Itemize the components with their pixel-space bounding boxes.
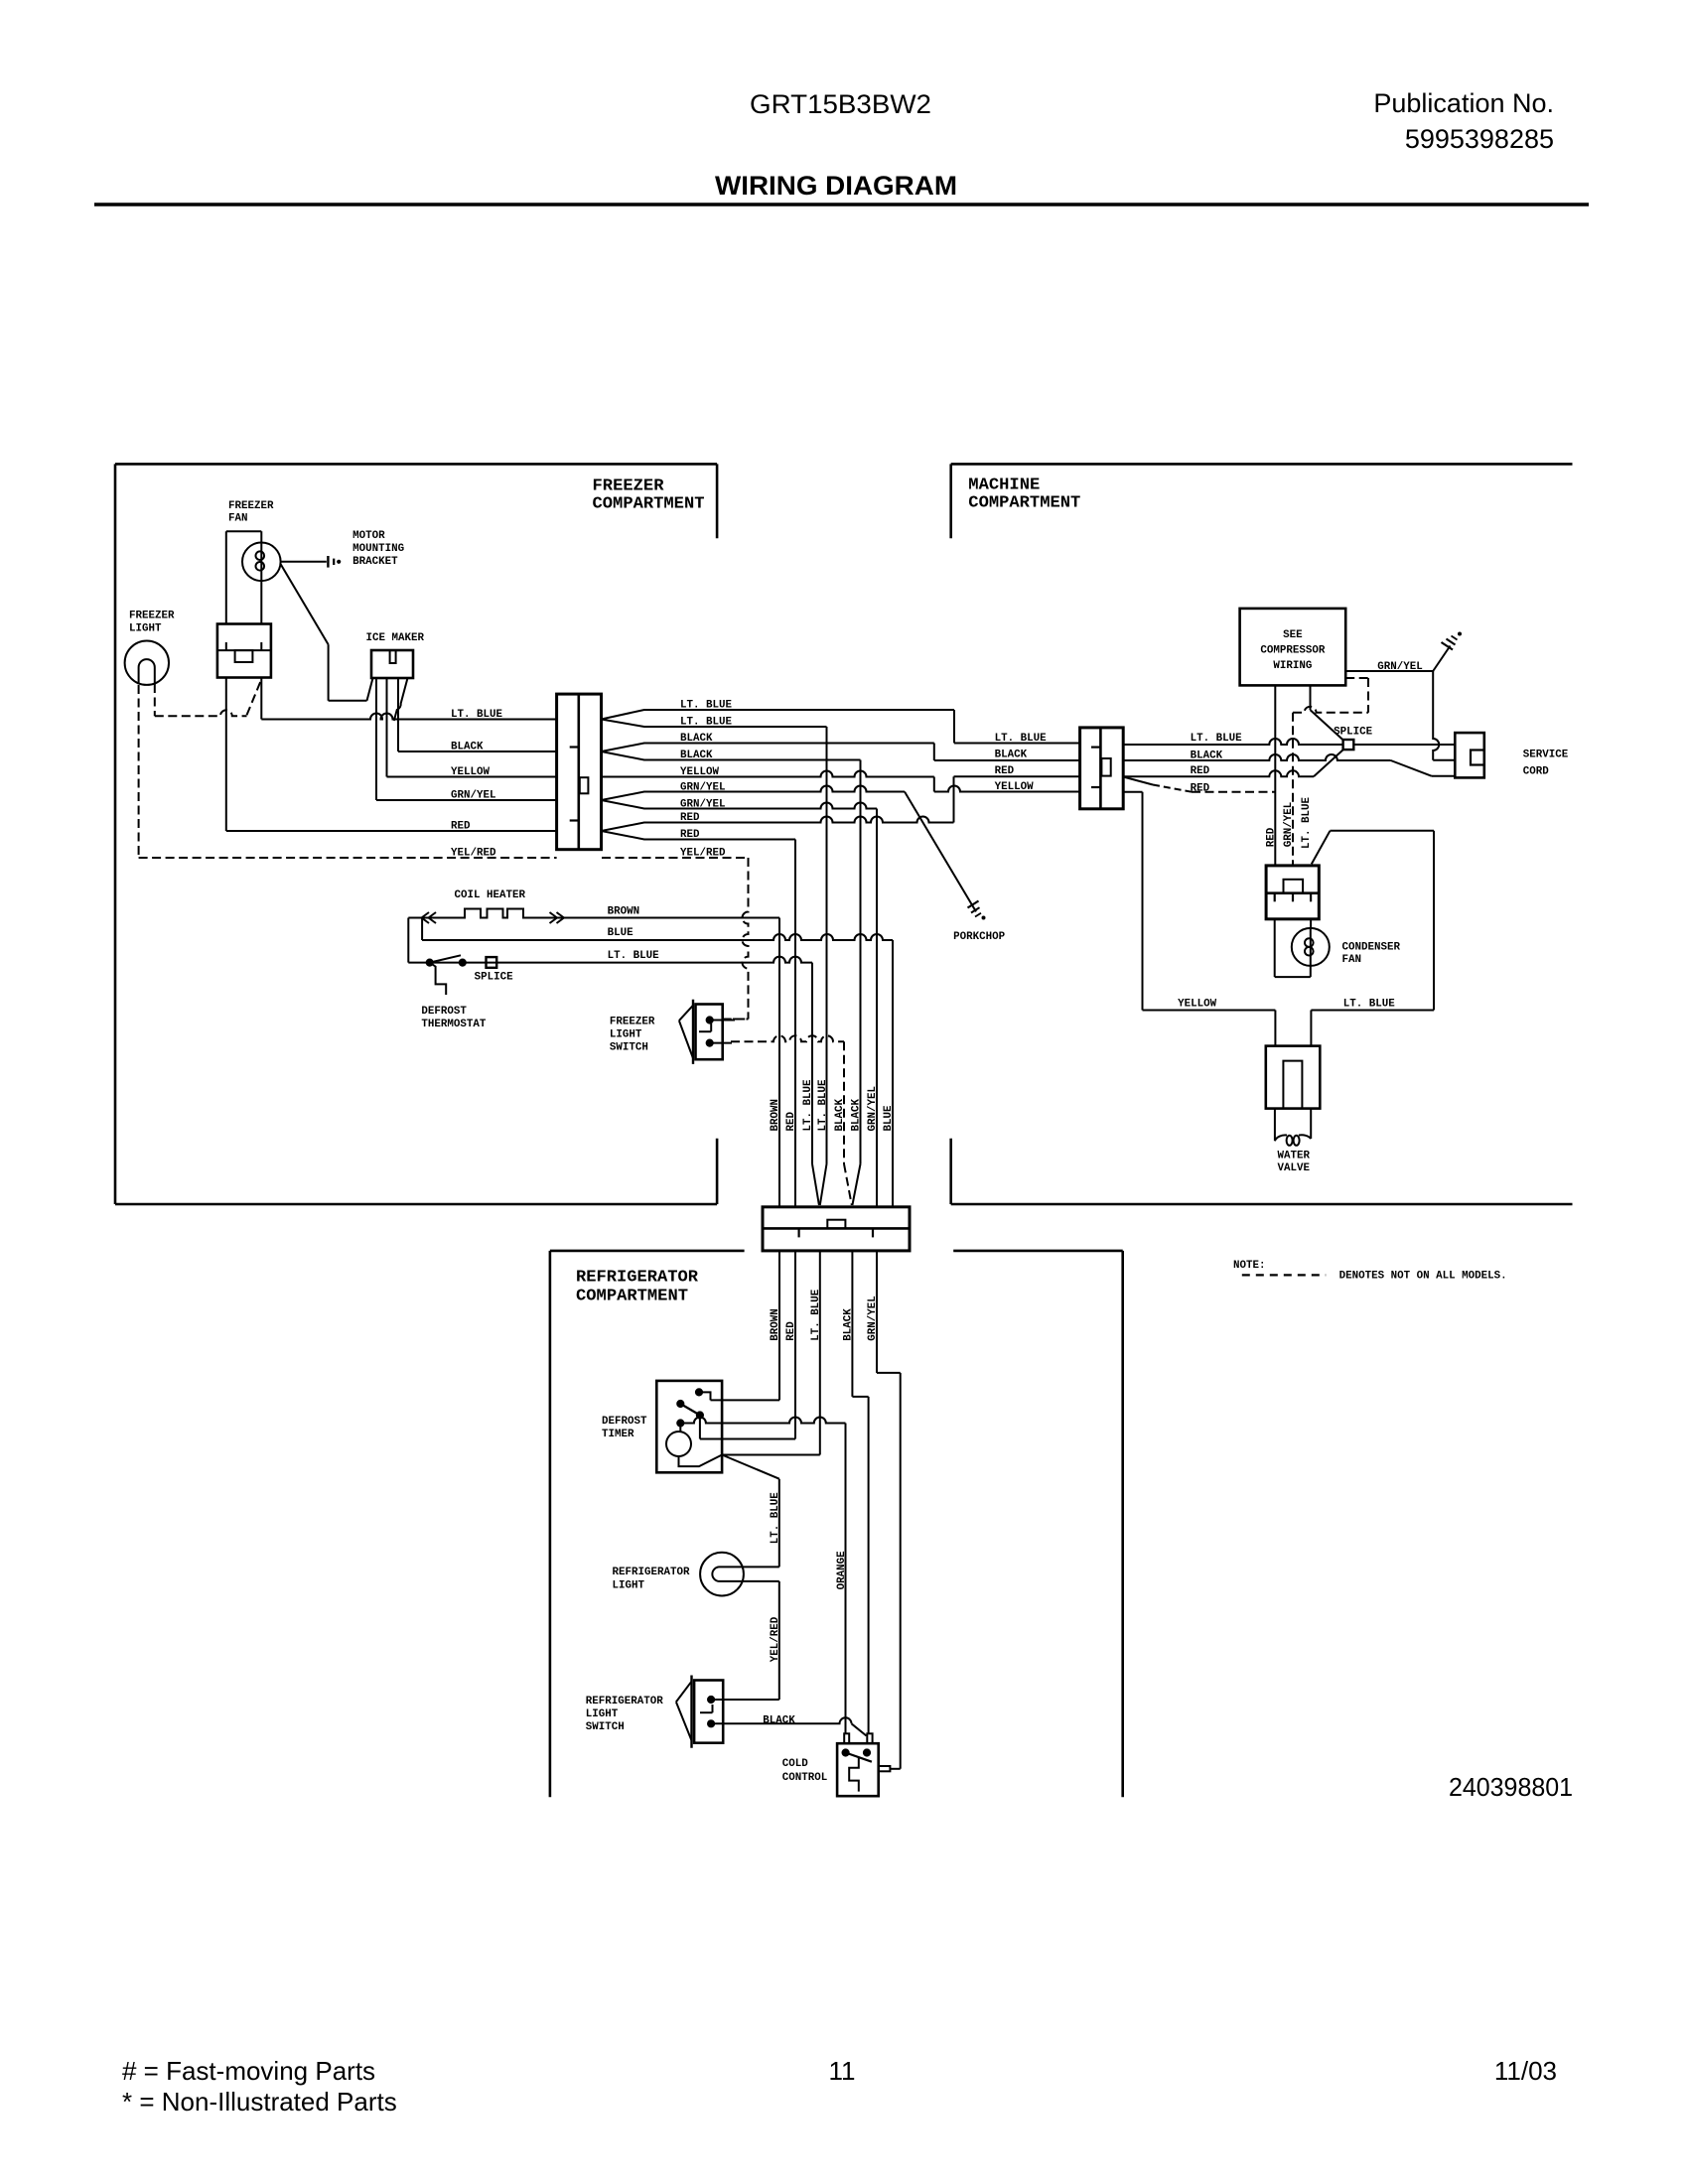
wire RED 2 drop to bundle: [654, 840, 795, 1207]
freezer fan label: [228, 500, 274, 525]
wire GRN/YEL to cold control: [877, 1251, 901, 1769]
YEL/RED label (refrigerator): [770, 1616, 781, 1662]
wire BLACK label left: [451, 742, 484, 753]
wire GRN/YEL 1 to porkchop: [654, 786, 976, 912]
splice label (freezer): [475, 972, 514, 984]
wire LT. BLUE condenser loop: [1311, 831, 1434, 1046]
svg-text:LIGHT: LIGHT: [586, 1708, 619, 1720]
wire LT. BLUE 1 to machine connector: [654, 710, 1080, 744]
defrost timer contact 1: [695, 1389, 710, 1401]
svg-text:NOTE:: NOTE:: [1233, 1260, 1266, 1272]
refrigerator light switch label: [586, 1696, 664, 1733]
connector P1 freezer harness: [557, 694, 602, 850]
wire switch to BLACK dashed (H4): [710, 1035, 844, 1042]
svg-text:MOUNTING: MOUNTING: [352, 543, 404, 555]
motor mounting bracket label: [352, 530, 404, 568]
svg-text:YELLOW: YELLOW: [1178, 999, 1217, 1011]
bundle wire label BLACK: [834, 1098, 846, 1131]
svg-text:FAN: FAN: [1342, 954, 1362, 966]
compressor pin RED vertical: [1274, 685, 1276, 866]
svg-text:GRN/YEL: GRN/YEL: [867, 1086, 879, 1132]
label LT. BLUE coil: [608, 950, 660, 962]
svg-text:BROWN: BROWN: [608, 905, 640, 917]
label GRN/YEL 1: [680, 782, 726, 794]
defrost timer switch lever: [677, 1400, 700, 1415]
refrigerator compartment boundary: [550, 1251, 1123, 1797]
freezer light switch label: [610, 1017, 655, 1054]
defrost thermostat: [426, 955, 466, 995]
svg-text:BRACKET: BRACKET: [352, 556, 398, 568]
bundle wire label RED: [785, 1111, 797, 1131]
wire RED machine connector to splice: [1123, 750, 1343, 776]
svg-text:240398801: 240398801: [1449, 1772, 1573, 1802]
svg-text:GRT15B3BW2: GRT15B3BW2: [750, 89, 931, 119]
motor mounting bracket ground: [281, 556, 341, 568]
svg-text:YELLOW: YELLOW: [995, 781, 1035, 793]
svg-text:11/03: 11/03: [1494, 2056, 1557, 2086]
svg-text:LT. BLUE: LT. BLUE: [608, 950, 660, 962]
label YEL/RED: [680, 848, 726, 860]
freezer compartment label: [593, 477, 705, 513]
wire BLACK light switch to cold control: [711, 1717, 866, 1735]
svg-text:LIGHT: LIGHT: [610, 1029, 642, 1041]
P1 fanout GRN/YEL pair: [602, 792, 657, 809]
svg-text:COLD: COLD: [782, 1758, 809, 1770]
wire LT. BLUE label left: [451, 709, 503, 721]
bundle wire label LT. BLUE: [817, 1079, 829, 1132]
wire GRN/YEL dashed to condenser connector: [1293, 678, 1368, 866]
service cord label: [1523, 750, 1569, 778]
freezer fan housing: [226, 531, 261, 623]
svg-text:BLACK: BLACK: [851, 1098, 863, 1131]
ice maker: [371, 650, 413, 678]
publication number block: [1373, 88, 1554, 154]
svg-text:LT. BLUE: LT. BLUE: [770, 1492, 781, 1545]
svg-text:SWITCH: SWITCH: [586, 1721, 625, 1733]
cold control: [837, 1733, 890, 1796]
svg-text:VALVE: VALVE: [1278, 1162, 1311, 1174]
refrigerator bundle label BLACK: [842, 1308, 854, 1341]
wire fan connector pin to LT. BLUE: [260, 678, 262, 720]
machine compartment boundary: [951, 464, 1573, 1204]
bundle wire label BROWN: [770, 1099, 781, 1132]
coil heater element BROWN wire: [408, 909, 779, 918]
footer legend: [122, 2056, 397, 2116]
wire BROWN drop to bundle: [778, 918, 780, 1207]
coil heater label: [455, 889, 526, 901]
BLACK label (refrigerator): [763, 1715, 795, 1727]
svg-text:CORD: CORD: [1523, 766, 1550, 778]
service cord plug: [1455, 733, 1484, 777]
svg-text:REFRIGERATOR: REFRIGERATOR: [576, 1269, 699, 1288]
footer date 11/03: [1494, 2056, 1557, 2086]
svg-text:DEFROST: DEFROST: [602, 1416, 647, 1428]
wire RED dashed branch: [1123, 777, 1275, 792]
svg-text:5995398285: 5995398285: [1405, 124, 1554, 154]
refrigerator light bulb: [700, 1553, 779, 1596]
svg-text:YEL/RED: YEL/RED: [451, 848, 496, 860]
svg-text:RED: RED: [451, 821, 471, 833]
svg-text:FREEZER: FREEZER: [610, 1017, 655, 1028]
ORANGE label: [836, 1551, 848, 1590]
cold control label: [782, 1758, 828, 1784]
coil heater chevron right: [550, 912, 565, 923]
svg-text:SPLICE: SPLICE: [1334, 727, 1373, 739]
wire BLUE (heater return): [422, 918, 893, 941]
svg-text:GRN/YEL: GRN/YEL: [451, 790, 496, 802]
label YELLOW: [680, 766, 720, 778]
svg-text:CONDENSER: CONDENSER: [1342, 942, 1401, 954]
wire fan motor to ice maker (diagonal): [280, 564, 366, 701]
ice maker pin 4 wire BLACK drop: [397, 678, 399, 751]
wire YEL/RED dashed (light to P1): [139, 857, 557, 859]
defrost timer label: [602, 1416, 647, 1440]
svg-text:COIL HEATER: COIL HEATER: [455, 889, 526, 901]
defrost timer contact 4 and ORANGE wire: [677, 1418, 846, 1734]
svg-text:RED: RED: [785, 1321, 797, 1341]
LT. BLUE label (refrigerator): [770, 1492, 781, 1545]
label RED 1: [680, 812, 700, 824]
svg-text:LT. BLUE: LT. BLUE: [995, 733, 1048, 745]
P1 fanout BLACK pair: [602, 744, 657, 760]
refrigerator light switch: [676, 1676, 723, 1748]
freezer compartment boundary: [115, 464, 717, 1204]
refrigerator bundle label BROWN: [770, 1308, 781, 1341]
footer page number 11: [829, 2056, 856, 2086]
svg-text:LT. BLUE: LT. BLUE: [1301, 796, 1313, 849]
wire RED (fan to P1): [226, 830, 557, 832]
svg-text:COMPARTMENT: COMPARTMENT: [593, 494, 705, 513]
svg-text:LT. BLUE: LT. BLUE: [451, 709, 503, 721]
defrost timer contact 3: [696, 1412, 703, 1439]
title model number GRT15B3BW2: [750, 89, 931, 119]
svg-text:SPLICE: SPLICE: [475, 972, 514, 984]
freezer fan connector: [217, 624, 271, 678]
machine connector P3: [1080, 728, 1124, 809]
LT. BLUE label (water valve): [1343, 999, 1396, 1011]
wire YELLOW machine connector to water valve: [1123, 792, 1275, 1046]
svg-text:BLACK: BLACK: [451, 742, 484, 753]
svg-text:RED: RED: [1266, 827, 1278, 847]
svg-text:LT. BLUE: LT. BLUE: [817, 1079, 829, 1132]
freezer light bulb: [125, 641, 169, 685]
svg-text:SERVICE: SERVICE: [1523, 750, 1569, 761]
svg-text:GRN/YEL: GRN/YEL: [1377, 661, 1423, 673]
svg-text:FREEZER: FREEZER: [228, 500, 274, 512]
water valve: [1266, 1046, 1321, 1146]
coil heater left end: [407, 918, 409, 963]
label BLUE: [608, 927, 634, 939]
coil heater chevron left: [422, 912, 437, 923]
svg-text:11: 11: [829, 2056, 856, 2086]
defrost timer box: [656, 1381, 722, 1472]
svg-text:LT. BLUE: LT. BLUE: [1343, 999, 1396, 1011]
P1 fanout RED pair: [602, 823, 657, 840]
YELLOW label (water valve): [1178, 999, 1217, 1011]
svg-text:CONTROL: CONTROL: [782, 1772, 828, 1784]
svg-text:COMPRESSOR: COMPRESSOR: [1260, 645, 1326, 657]
svg-text:ORANGE: ORANGE: [836, 1551, 848, 1590]
compressor pin LT. BLUE to splice: [1311, 685, 1343, 740]
label RED 2: [680, 829, 700, 841]
svg-text:BLUE: BLUE: [608, 927, 634, 939]
svg-text:BROWN: BROWN: [770, 1099, 781, 1132]
note text: [1233, 1260, 1507, 1283]
svg-text:LIGHT: LIGHT: [613, 1580, 645, 1592]
condenser connector labels: [1266, 796, 1314, 849]
svg-text:FREEZER: FREEZER: [129, 611, 175, 622]
splice (freezer): [487, 957, 497, 968]
freezer fan motor M1: [242, 543, 281, 582]
svg-text:LT. BLUE: LT. BLUE: [1191, 733, 1243, 745]
see compressor wiring box: [1240, 609, 1346, 686]
wire GRN/YEL 2 drop to bundle: [654, 803, 877, 1207]
svg-text:ICE MAKER: ICE MAKER: [366, 632, 425, 644]
svg-text:RED: RED: [1191, 765, 1210, 777]
wire BLACK to cold control: [852, 1251, 868, 1733]
wire GRN/YEL compressor to ground: [1345, 646, 1450, 672]
defrost thermostat label: [421, 1006, 487, 1030]
svg-text:# = Fast-moving Parts: # = Fast-moving Parts: [122, 2056, 375, 2086]
svg-text:GRN/YEL: GRN/YEL: [1283, 802, 1295, 848]
svg-text:BLACK: BLACK: [995, 750, 1028, 761]
wire GRN/YEL label left: [451, 790, 496, 802]
svg-text:BLUE: BLUE: [883, 1105, 895, 1132]
water valve label: [1278, 1151, 1311, 1175]
header rule: [94, 203, 1589, 205]
ice maker pin 2 wire GRN/YEL drop: [375, 678, 377, 800]
svg-text:DEFROST: DEFROST: [421, 1006, 467, 1018]
P1 fanout LT. BLUE pair: [602, 710, 657, 727]
defrost timer motor: [666, 1424, 722, 1467]
wire BLACK (ice maker to P1): [398, 751, 557, 752]
wire freezer light to fan connector (dashed door circuit): [155, 680, 261, 716]
svg-text:GRN/YEL: GRN/YEL: [867, 1296, 879, 1341]
bundle wire label GRN/YEL: [867, 1086, 879, 1132]
wire RED to defrost timer: [700, 1251, 795, 1439]
label LT. BLUE 2: [680, 717, 733, 729]
bundle wire label BLUE: [883, 1105, 895, 1132]
svg-text:Publication No.: Publication No.: [1373, 88, 1554, 118]
wire YEL/RED to light switch: [711, 1581, 779, 1700]
wire switch to YEL/RED: [710, 1020, 749, 1021]
machine compartment label: [968, 476, 1080, 512]
wire BLUE drop to bundle: [892, 940, 894, 1207]
bundle wire label LT. BLUE: [802, 1079, 814, 1132]
compressor ground hatching: [1442, 632, 1462, 650]
svg-text:SEE: SEE: [1283, 629, 1303, 641]
svg-text:MACHINE: MACHINE: [968, 476, 1040, 494]
svg-text:RED: RED: [785, 1111, 797, 1131]
wire LT. BLUE (coil) drop to bundle: [812, 963, 819, 1205]
ice maker pin 1 diagonal: [367, 678, 373, 701]
svg-text:BLACK: BLACK: [763, 1715, 795, 1727]
svg-text:REFRIGERATOR: REFRIGERATOR: [586, 1696, 664, 1707]
ice maker label: [366, 632, 425, 644]
freezer light switch: [679, 1000, 723, 1064]
ice maker pin 5 diagonal to LT. BLUE: [394, 678, 408, 721]
svg-text:SWITCH: SWITCH: [610, 1042, 648, 1054]
wire LT. BLUE to defrost timer: [722, 1251, 820, 1455]
bundle wire label BLACK: [851, 1098, 863, 1131]
part number 240398801: [1449, 1772, 1573, 1802]
connector P2 bulkhead: [763, 1207, 910, 1251]
svg-text:REFRIGERATOR: REFRIGERATOR: [613, 1567, 691, 1578]
label BLACK 2: [680, 750, 713, 761]
svg-text:THERMOSTAT: THERMOSTAT: [421, 1019, 487, 1030]
wire YELLOW (ice maker to P1): [387, 776, 557, 778]
see compressor wiring text: [1260, 629, 1326, 672]
wire freezer light to YEL/RED (dashed): [138, 685, 140, 856]
refrigerator bundle label LT. BLUE: [810, 1289, 822, 1341]
svg-text:FAN: FAN: [228, 513, 248, 525]
wire RED 1 to machine connector: [654, 776, 1080, 822]
svg-text:PORKCHOP: PORKCHOP: [953, 931, 1006, 943]
svg-text:BLACK: BLACK: [834, 1098, 846, 1131]
freezer light label: [129, 611, 175, 635]
svg-text:BROWN: BROWN: [770, 1308, 781, 1341]
condenser fan label: [1342, 942, 1401, 967]
label BROWN: [608, 905, 640, 917]
wire BLACK 1 to machine connector: [654, 744, 1080, 761]
splice label S1: [1334, 727, 1373, 739]
wire splice to service cord: [1353, 744, 1455, 746]
svg-text:WATER: WATER: [1278, 1151, 1311, 1162]
wire BLACK machine connector to service cord: [1123, 754, 1455, 776]
svg-text:COMPARTMENT: COMPARTMENT: [576, 1288, 688, 1306]
svg-text:WIRING: WIRING: [1273, 660, 1312, 672]
wire BLACK dashed (light switch) drop to bundle: [844, 1041, 852, 1205]
svg-text:WIRING DIAGRAM: WIRING DIAGRAM: [715, 171, 957, 201]
wire GRN/YEL (ice maker to P1): [376, 799, 557, 801]
condenser fan motor: [1275, 919, 1330, 977]
wire LT. BLUE (fan to connector P1): [261, 714, 556, 720]
machine connector right labels: [1191, 733, 1243, 795]
heading WIRING DIAGRAM: [715, 171, 957, 201]
condenser connector P4: [1266, 866, 1319, 919]
svg-text:YEL/RED: YEL/RED: [770, 1616, 781, 1662]
wire YELLOW label left: [451, 766, 491, 778]
label LT. BLUE 1: [680, 700, 733, 712]
wire BLACK 2 drop to bundle: [654, 760, 861, 1206]
svg-text:LT. BLUE: LT. BLUE: [802, 1079, 814, 1132]
wire LT. BLUE machine connector to splice: [1123, 739, 1342, 745]
machine connector left labels: [995, 733, 1048, 793]
wire LT. BLUE (defrost thermostat): [408, 957, 812, 963]
wire fan connector pin to RED: [225, 678, 227, 832]
label BLACK 1: [680, 733, 713, 745]
svg-text:DENOTES NOT ON ALL MODELS.: DENOTES NOT ON ALL MODELS.: [1339, 1271, 1507, 1283]
refrigerator compartment label: [576, 1269, 699, 1306]
wire BROWN to defrost timer: [711, 1251, 780, 1401]
svg-text:LIGHT: LIGHT: [129, 623, 162, 635]
ice maker pin 3 wire YELLOW drop: [386, 678, 388, 777]
porkchop ground hatching: [968, 901, 986, 920]
wire YELLOW to machine connector: [602, 771, 1080, 792]
wire YEL/RED label left: [451, 848, 496, 860]
svg-text:TIMER: TIMER: [602, 1429, 634, 1440]
splice S1: [1343, 740, 1354, 750]
svg-text:COMPARTMENT: COMPARTMENT: [968, 493, 1080, 512]
svg-text:LT. BLUE: LT. BLUE: [810, 1289, 822, 1341]
svg-text:* = Non-Illustrated Parts: * = Non-Illustrated Parts: [122, 2087, 397, 2116]
wire LT. BLUE 2 drop to bundle: [654, 727, 827, 1205]
label GRN/YEL 2: [680, 799, 726, 811]
wire YEL/RED dashed drop: [602, 858, 749, 1020]
wire RED label left: [451, 821, 471, 833]
svg-text:YELLOW: YELLOW: [451, 766, 491, 778]
wire GRN/YEL ground to service cord: [1433, 671, 1455, 760]
svg-text:FREEZER: FREEZER: [593, 477, 665, 495]
svg-text:BLACK: BLACK: [842, 1308, 854, 1341]
svg-text:MOTOR: MOTOR: [352, 530, 385, 542]
svg-text:RED: RED: [995, 765, 1015, 777]
refrigerator bundle label GRN/YEL: [867, 1296, 879, 1341]
porkchop label: [953, 931, 1006, 943]
refrigerator bundle label RED: [785, 1321, 797, 1341]
wire timer motor junction to refrigerator light: [722, 1455, 779, 1568]
GRN/YEL label (ground): [1377, 661, 1423, 673]
refrigerator light label: [613, 1567, 691, 1592]
